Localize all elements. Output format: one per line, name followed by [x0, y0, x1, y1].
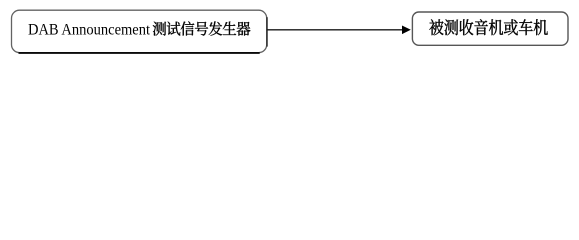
svg-text:DAB Announcement: DAB Announcement: [28, 22, 150, 39]
